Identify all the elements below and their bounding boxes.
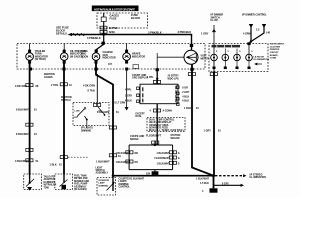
svg-text:FLOORSHIFT: FLOORSHIFT (146, 134, 162, 137)
hvac inner bars (142, 87, 144, 91)
svg-text:ASSEMBLY USES: ASSEMBLY USES (149, 124, 169, 127)
svg-text:ASSEMBLY: ASSEMBLY (74, 185, 87, 188)
pair on ladder feed (152, 141, 155, 144)
svg-text:3 PNK/BLK: 3 PNK/BLK (87, 36, 101, 40)
left arrow below label (254, 63, 257, 66)
indicator lamp 4 (123, 53, 131, 61)
svg-text:SEDAN: SEDAN (130, 138, 139, 141)
svg-text:METER AND: METER AND (74, 177, 88, 180)
svg-text:1 BLK/WHT: 1 BLK/WHT (196, 178, 210, 181)
illum feed wire gry (212, 29, 216, 33)
svg-text:3 DK GRN: 3 DK GRN (15, 85, 27, 88)
splice S24 (154, 170, 156, 176)
svg-text:SWITCH: SWITCH (211, 17, 220, 19)
svg-text:INDICATOR: INDICATOR (132, 55, 145, 58)
wire W2 fuel sender (63, 61, 65, 175)
svg-text:ADAPTER: ADAPTER (44, 178, 55, 181)
svg-text:DETAILS: DETAILS (56, 31, 67, 35)
dashed branch to ip stereo (215, 175, 244, 177)
svg-text:I/P STEREO: I/P STEREO (250, 174, 263, 176)
illum bottom pins (213, 67, 216, 70)
svg-text:1 GRY: 1 GRY (125, 94, 132, 97)
svg-text:39 PNK: 39 PNK (109, 26, 118, 30)
svg-text:GRG DISPLAY: GRG DISPLAY (132, 77, 149, 80)
wire W3 dk grn jog (96, 60, 113, 176)
svg-text:140: 140 (266, 31, 271, 34)
svg-text:DIMMING: DIMMING (99, 185, 109, 187)
hvac left pins (137, 87, 140, 90)
ladder bottom bar (129, 169, 173, 171)
pair on W1 (26, 123, 29, 126)
svg-text:3 BLK/WHT: 3 BLK/WHT (15, 160, 29, 163)
svg-text:1 BLK/WHT: 1 BLK/WHT (116, 152, 130, 155)
pin lamp4 out (125, 68, 128, 71)
connector pair 39 PNK (100, 26, 103, 29)
svg-text:ILLUMINATION: ILLUMINATION (250, 176, 267, 179)
svg-text:1.5 BLK: 1.5 BLK (200, 182, 209, 185)
svg-text:INTERIOR: INTERIOR (99, 180, 110, 182)
svg-text:G: G (178, 152, 180, 155)
W1 label (26, 148, 29, 151)
indicator lamp 3 (92, 53, 100, 61)
svg-text:2 GRY: 2 GRY (182, 91, 189, 94)
voltmeter gauge U1 (184, 50, 198, 64)
rheostat wire (112, 176, 114, 191)
svg-text:1 GRY: 1 GRY (201, 33, 209, 36)
arrow to fuse block details (68, 33, 73, 36)
pin lamp 1 (28, 50, 31, 53)
svg-text:W/DUAL TEMP CONTROL: W/DUAL TEMP CONTROL (149, 129, 185, 132)
svg-text:4 BLK: 4 BLK (182, 95, 189, 98)
solid branch arrow (214, 184, 242, 186)
left rail pair a (126, 151, 129, 154)
svg-text:ASSEMBLY: ASSEMBLY (96, 172, 109, 175)
pin lamp2 out (62, 68, 65, 71)
rheostat arrow (107, 182, 115, 191)
pin above lamp 3 (95, 49, 98, 52)
ladder top bar (129, 144, 173, 146)
svg-text:HOT IN RUN, BULB TEST OR START: HOT IN RUN, BULB TEST OR START (94, 7, 135, 11)
svg-text:(W TRLR): (W TRLR) (35, 58, 46, 61)
pair on W1 (26, 84, 29, 87)
svg-text:4 DK GRN: 4 DK GRN (83, 85, 95, 88)
svg-text:CLUSTER: CLUSTER (270, 46, 281, 48)
cluster illumination title (212, 45, 241, 48)
spare pin box (133, 65, 139, 69)
svg-text:SOON: SOON (81, 55, 88, 58)
trailer adapter dashed box (24, 174, 42, 190)
svg-text:FUSE: FUSE (110, 17, 117, 21)
svg-text:8 LT GRN: 8 LT GRN (115, 102, 126, 105)
pin voltmeter out (190, 68, 193, 71)
center hvac display feed (156, 68, 159, 71)
illum lamp 4 (246, 54, 253, 61)
illum lamp 2 stub (224, 49, 226, 55)
svg-text:GAGES: GAGES (44, 76, 53, 79)
svg-text:A CONN: A CONN (163, 109, 173, 112)
wire drop to cluster pin (96, 35, 104, 50)
illum lamp bottom stubs (213, 61, 215, 72)
node fuse links join (250, 40, 252, 42)
svg-text:TOW: TOW (44, 187, 50, 189)
svg-text:4 PPL: 4 PPL (125, 89, 132, 92)
ladder left rail (128, 145, 130, 170)
pin voltmeter feed (190, 44, 193, 47)
fusible link arrow A (249, 24, 253, 28)
switch pole 1 (77, 109, 85, 117)
pair on W3 low (109, 154, 112, 157)
pair on W3 (109, 126, 112, 129)
arrow end lamp4 wire (125, 107, 129, 110)
svg-text:DIMMING: DIMMING (119, 184, 129, 186)
connector pair S209 (100, 30, 103, 33)
power feed header HOT IN RUN (92, 6, 139, 12)
svg-text:I/P LIGHTS: I/P LIGHTS (81, 128, 93, 130)
illum lamp 2 (222, 54, 229, 61)
svg-text:METER: METER (201, 57, 210, 60)
pair on W1 (26, 159, 29, 162)
fuel sender switch symbol (63, 175, 65, 184)
wire WB gry illum ground (213, 72, 215, 176)
pair on voltmeter ground (188, 73, 191, 76)
svg-text:8 BLK/WHT: 8 BLK/WHT (16, 109, 30, 112)
lamp stub 1 (29, 44, 31, 54)
wire junction down (213, 176, 215, 189)
svg-text:4 BLK: 4 BLK (125, 100, 132, 103)
svg-text:8 BLK/WHT: 8 BLK/WHT (16, 133, 30, 136)
pair below hvac (153, 109, 156, 112)
svg-text:CIRCUIT: CIRCUIT (270, 52, 280, 54)
dual temp note dashed box (147, 118, 185, 132)
dashes right of W2 pair (68, 156, 88, 158)
svg-text:CONTROL: CONTROL (119, 187, 131, 189)
svg-text:8 DK GRN: 8 DK GRN (97, 111, 109, 114)
illum lamp 4 stub (248, 44, 250, 55)
svg-text:SWITCH: SWITCH (61, 99, 71, 102)
svg-text:CONN: CONN (270, 58, 277, 60)
svg-text:1 BLK/WHT: 1 BLK/WHT (157, 152, 171, 155)
wire pin to lamp 3 (95, 50, 97, 53)
indicator lamp 1 (26, 53, 34, 61)
svg-text:DUAL: DUAL (136, 115, 143, 118)
svg-text:2 TAN: 2 TAN (51, 84, 58, 87)
svg-text:4 ORN: 4 ORN (243, 33, 251, 36)
pair on thin wire (94, 104, 97, 107)
svg-text:6 BLK: 6 BLK (182, 100, 189, 103)
hvac ground drop (156, 104, 158, 145)
ground bus wire (113, 175, 214, 177)
lamp stub 4 (126, 44, 128, 54)
svg-text:1 BLK/WHT: 1 BLK/WHT (96, 161, 110, 164)
svg-text:1 BLK/WHT: 1 BLK/WHT (116, 161, 130, 164)
svg-text:I/P DIMMER: I/P DIMMER (211, 15, 224, 17)
down arrow below trailer box (28, 187, 32, 190)
dimmer switch dashed box (73, 103, 109, 126)
hvac control box (140, 84, 178, 104)
svg-text:S209: S209 (109, 30, 116, 34)
svg-text:3 PNK/BLK: 3 PNK/BLK (178, 30, 192, 34)
svg-text:LAMP: LAMP (99, 182, 106, 185)
instrument cluster dashed box (17, 44, 205, 70)
svg-text:LIGHT: LIGHT (96, 167, 103, 169)
cluster illumination dashed box (209, 44, 268, 72)
pin lamp 2 (63, 50, 66, 53)
pair on W2 (60, 83, 63, 86)
svg-text:INSTRUMENT: INSTRUMENT (270, 44, 285, 46)
ladder right rail (172, 145, 174, 170)
wire W1 black lamp1 ground (29, 61, 31, 175)
svg-text:BOARD: BOARD (270, 54, 278, 57)
node main ground junction (212, 174, 215, 177)
svg-text:SENDER AND: SENDER AND (74, 180, 89, 183)
fusible link arrow B (262, 24, 266, 28)
svg-text:1 BLK: 1 BLK (50, 163, 57, 166)
svg-text:STATION: STATION (171, 134, 181, 137)
pair on W2 low (60, 156, 63, 159)
fuse F symbol (101, 17, 106, 22)
illum lamp 1 (211, 54, 218, 61)
svg-text:FUEL PUMP: FUEL PUMP (74, 184, 88, 186)
svg-text:PRINTED: PRINTED (270, 49, 280, 51)
ground block G200 (210, 188, 218, 192)
svg-text:1 BLK: 1 BLK (184, 107, 191, 110)
switch pole 2 (98, 107, 105, 115)
svg-text:ILLUMINATION: ILLUMINATION (254, 58, 270, 61)
illum lamp 3 (234, 54, 241, 61)
svg-text:LA ROOM: LA ROOM (254, 56, 264, 59)
right rail pair a (169, 151, 172, 154)
indicator lamp 2 (60, 53, 68, 61)
trailer connector switch symbol (29, 175, 31, 184)
svg-text:SWITCH: SWITCH (96, 170, 105, 172)
wire WA voltmeter ground (192, 64, 214, 175)
hvac right pins (177, 86, 180, 89)
pair on hvac feed (153, 80, 156, 83)
svg-text:107: 107 (108, 63, 113, 66)
pin 8 cluster feed (102, 42, 105, 45)
thin wire to dimmer switch (96, 74, 98, 104)
svg-text:DIMMING: DIMMING (81, 130, 91, 132)
illum lamp 3 stub (236, 49, 238, 55)
wire from feed into fuse (103, 13, 105, 17)
svg-text:HARNESS: HARNESS (44, 181, 56, 184)
svg-text:BLOCK: BLOCK (131, 16, 140, 20)
pin lamp3 out (94, 68, 97, 71)
pin lamp 4 (125, 50, 128, 53)
lamp stub 2 (63, 44, 65, 54)
svg-text:ILLUM: ILLUM (211, 20, 218, 22)
svg-text:WDO LPS: WDO LPS (168, 77, 180, 80)
svg-text:G: G (178, 157, 180, 160)
svg-text:FUEL TANK: FUEL TANK (74, 175, 87, 178)
svg-text:WAGON: WAGON (171, 137, 180, 140)
svg-text:8 GRY: 8 GRY (222, 183, 229, 185)
wire lamp4 arrow stub (126, 69, 128, 108)
svg-text:3 PNK/BLK: 3 PNK/BLK (148, 31, 162, 35)
svg-text:8 TAN: 8 TAN (88, 89, 95, 92)
svg-text:DUAL TEMP CONTROL: DUAL TEMP CONTROL (149, 118, 175, 121)
svg-text:COURTESY: COURTESY (119, 179, 132, 181)
svg-text:8 OR: 8 OR (182, 86, 188, 89)
fuse block dashed box (97, 13, 148, 28)
svg-text:G: G (178, 163, 180, 166)
svg-text:INDICATOR: INDICATOR (103, 57, 116, 60)
svg-text:I/P DIMMER CONTROL: I/P DIMMER CONTROL (242, 15, 267, 17)
left rail pair b (126, 160, 129, 163)
svg-text:LAMPS: LAMPS (119, 180, 128, 183)
svg-text:HEAD AND DISPLAY: HEAD AND DISPLAY (149, 121, 172, 124)
svg-text:EXCEPT: EXCEPT (136, 114, 146, 116)
wire drop to voltmeter (191, 35, 193, 51)
fuel sender dashed box (55, 174, 73, 190)
svg-text:TAILGATE: TAILGATE (44, 176, 56, 179)
svg-text:1 GRY: 1 GRY (204, 130, 212, 133)
svg-text:OFF: OFF (74, 117, 79, 119)
right rail pair c (169, 161, 172, 164)
wire main pnk/blk bus (72, 34, 192, 36)
pin lamp1 out (29, 68, 32, 71)
svg-text:1 BLK/WHT: 1 BLK/WHT (131, 177, 145, 180)
voltmeter feed tee (156, 53, 158, 69)
svg-text:FLOORSHIFT: FLOORSHIFT (155, 157, 171, 160)
svg-text:1 BLK/WHT: 1 BLK/WHT (157, 163, 171, 166)
interior dimmer dashed box (97, 178, 116, 196)
wire fuse to pairs (103, 22, 105, 35)
right rail pair b (169, 156, 172, 159)
node W3 to bus (112, 174, 115, 177)
pair on illum ground (210, 73, 213, 76)
svg-text:(W GAGES): (W GAGES) (74, 188, 87, 191)
node S junction at fuse drop (102, 33, 105, 36)
